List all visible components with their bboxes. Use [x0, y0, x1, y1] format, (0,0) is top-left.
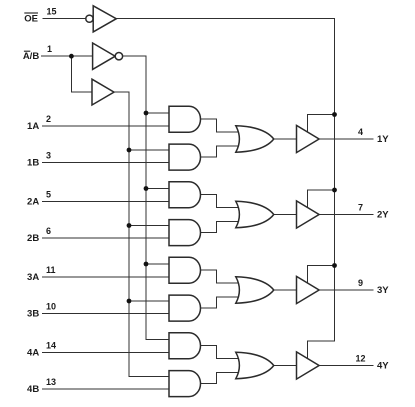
svg-text:6: 6 [46, 226, 51, 236]
svg-text:15: 15 [47, 7, 57, 17]
svg-text:12: 12 [355, 354, 365, 364]
svg-text:4A: 4A [27, 348, 39, 359]
svg-text:3: 3 [46, 151, 51, 161]
svg-text:2B: 2B [27, 233, 39, 244]
svg-text:14: 14 [46, 341, 56, 351]
svg-text:1Y: 1Y [377, 134, 389, 145]
svg-text:3B: 3B [27, 309, 39, 320]
svg-text:2Y: 2Y [377, 209, 389, 220]
svg-text:10: 10 [46, 302, 56, 312]
svg-text:5: 5 [46, 190, 51, 200]
svg-text:1A: 1A [27, 121, 39, 132]
svg-text:OE: OE [24, 14, 38, 25]
svg-text:A/B: A/B [23, 51, 40, 62]
svg-text:1: 1 [47, 44, 52, 54]
svg-text:3Y: 3Y [377, 285, 389, 296]
svg-text:4: 4 [358, 127, 363, 137]
svg-text:7: 7 [358, 203, 363, 213]
svg-text:2: 2 [46, 114, 51, 124]
svg-text:4B: 4B [27, 384, 39, 395]
svg-text:9: 9 [358, 278, 363, 288]
svg-text:4Y: 4Y [377, 360, 389, 371]
svg-text:2A: 2A [27, 197, 39, 208]
svg-text:13: 13 [46, 377, 56, 387]
svg-text:1B: 1B [27, 158, 39, 169]
svg-text:3A: 3A [27, 272, 39, 283]
svg-text:11: 11 [46, 265, 56, 275]
